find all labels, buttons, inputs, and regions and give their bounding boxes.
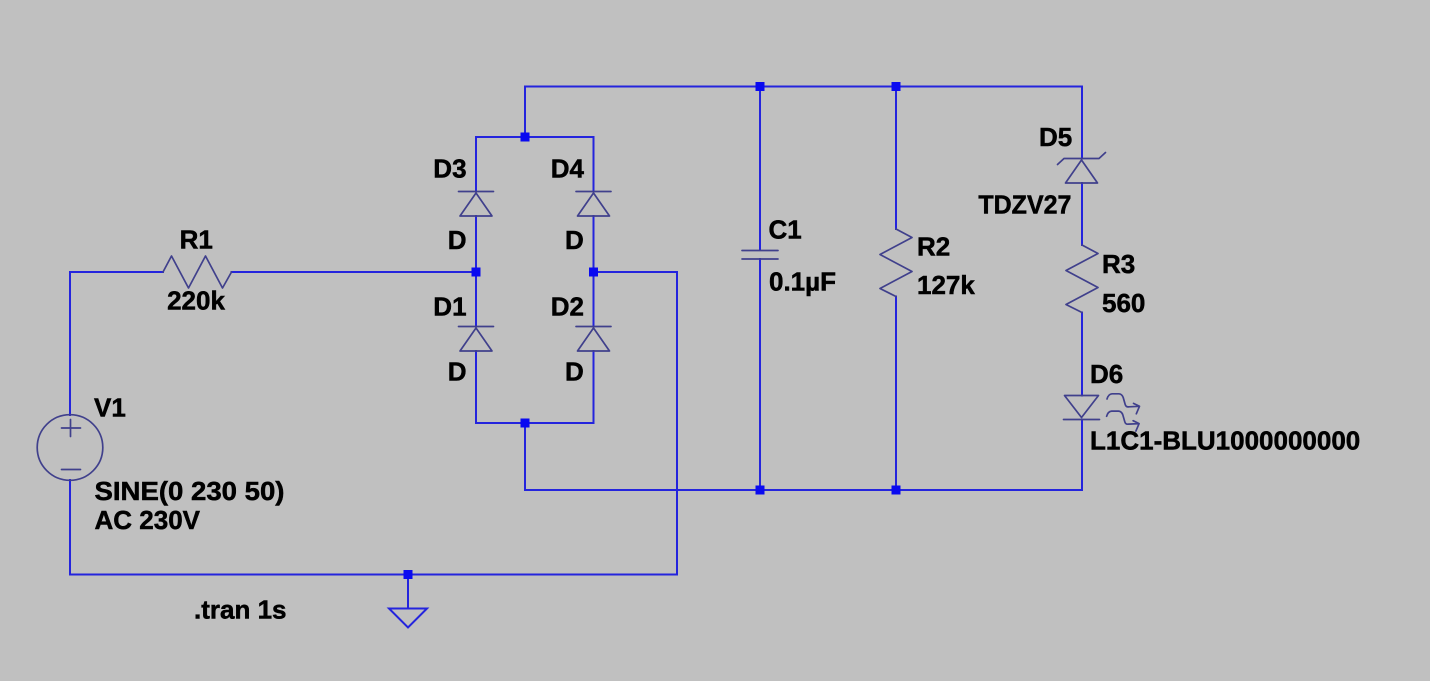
wire left col above D3 (475, 137, 477, 192)
svg-text:C1: C1 (769, 214, 802, 244)
wire bridge top (476, 136, 594, 138)
wire R1 left lead (70, 271, 163, 273)
wire ground stub (407, 575, 409, 609)
wire right drop to D5 (1081, 87, 1083, 159)
svg-text:V1: V1 (94, 392, 126, 422)
junction bottom rail C1 (756, 486, 765, 495)
wire R2 top lead (895, 87, 897, 230)
junction bottom rail R2 (892, 486, 901, 495)
junction top rail C1 (756, 82, 765, 91)
wire bridge right node to return (594, 271, 678, 273)
svg-text:D5: D5 (1039, 122, 1072, 152)
diode D3 (459, 192, 494, 217)
wire V1 bottom (69, 480, 71, 575)
svg-text:D6: D6 (1090, 359, 1123, 389)
junction ground (404, 570, 413, 579)
svg-text:560: 560 (1102, 288, 1145, 318)
diode D4 (576, 192, 611, 217)
wire D5 to R3 (1081, 183, 1083, 245)
svg-text:D3: D3 (433, 154, 466, 184)
svg-text:AC 230V: AC 230V (95, 505, 201, 535)
wire R1 right lead (232, 271, 477, 273)
svg-text:127k: 127k (917, 270, 975, 300)
wire right col above D4 (593, 137, 595, 192)
svg-text:D1: D1 (433, 292, 466, 322)
LED D6 light arrow 1 (1107, 394, 1140, 414)
capacitor C1 (742, 251, 778, 260)
zener diode D5 (1058, 153, 1106, 184)
wire D6 to bottom rail (1081, 420, 1083, 491)
svg-text:D4: D4 (551, 154, 585, 184)
wire bridge bottom (476, 422, 594, 424)
wire C1 top lead (759, 87, 761, 251)
junction bridge right node (589, 268, 598, 277)
junction bridge top (521, 133, 530, 142)
svg-text:220k: 220k (167, 286, 225, 316)
wire top rail (525, 86, 1082, 88)
svg-text:.tran 1s: .tran 1s (194, 595, 287, 625)
wire top mid stub (524, 87, 526, 138)
svg-text:R1: R1 (180, 225, 213, 255)
wire right col D4 to D2 (593, 216, 595, 327)
svg-text:R3: R3 (1102, 249, 1135, 279)
svg-text:SINE(0 230 50): SINE(0 230 50) (95, 476, 285, 506)
svg-text:D: D (448, 225, 467, 255)
diode D2 (576, 327, 611, 352)
wire bridge bottom stub (524, 423, 526, 490)
svg-text:0.1µF: 0.1µF (769, 267, 836, 297)
wire R2 bottom lead (895, 297, 897, 491)
voltage source V1 (37, 415, 103, 481)
wire left col D3 to D1 (475, 216, 477, 327)
svg-text:D: D (448, 357, 467, 387)
LED D6 light arrow 2 (1107, 411, 1140, 431)
resistor R1 (163, 256, 232, 288)
wire left col below D1 (475, 351, 477, 423)
svg-text:R2: R2 (917, 232, 950, 262)
wire C1 bottom lead (759, 259, 761, 490)
wire right col below D2 (593, 351, 595, 423)
junction bridge bottom (521, 419, 530, 428)
diode D1 (459, 327, 494, 352)
svg-text:D2: D2 (551, 292, 584, 322)
wire return vertical (676, 272, 678, 575)
wire R3 to D6 (1081, 313, 1083, 396)
svg-text:L1C1-BLU1000000000: L1C1-BLU1000000000 (1090, 426, 1360, 456)
LED D6 (1064, 396, 1100, 420)
resistor R2 (880, 229, 912, 297)
svg-text:TDZV27: TDZV27 (978, 190, 1071, 220)
svg-text:D: D (565, 225, 584, 255)
wire bottom rail (525, 489, 1082, 491)
junction bridge left node (472, 268, 481, 277)
svg-text:D: D (565, 357, 584, 387)
resistor R3 (1066, 245, 1098, 313)
ground (389, 609, 427, 628)
junction top rail R2 (892, 82, 901, 91)
wire bottom return horizontal (70, 574, 677, 576)
wire V1 top to R1 (69, 272, 71, 415)
